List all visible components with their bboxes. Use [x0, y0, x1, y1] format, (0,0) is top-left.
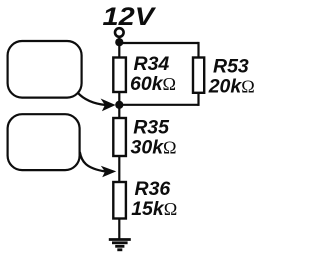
resistor R53 body — [193, 58, 204, 93]
svg-text:R35: R35 — [133, 117, 170, 139]
wire: R53 bottom lead (vertical) — [197, 93, 199, 106]
wire: 12V terminal to R34 top — [118, 37, 120, 58]
svg-text:R53: R53 — [213, 56, 249, 78]
arrow from box 1 to node A — [78, 93, 116, 112]
wire: R35 bottom to R36 top — [118, 156, 120, 182]
svg-text:R34: R34 — [134, 53, 170, 75]
svg-text:12V: 12V — [103, 3, 157, 31]
12V terminal circle — [115, 28, 124, 37]
svg-text:15kΩ: 15kΩ — [131, 198, 177, 220]
node A junction dot — [115, 101, 123, 109]
callout box 1 — [8, 41, 82, 98]
node: top junction dot — [115, 38, 123, 46]
resistor R34 body — [113, 58, 126, 93]
ground — [109, 240, 131, 250]
svg-text:20kΩ: 20kΩ — [208, 75, 255, 97]
arrow from box 2 to R35/R36 node — [80, 152, 116, 177]
wire: R34 bottom to node A — [118, 92, 120, 118]
svg-text:R36: R36 — [135, 178, 171, 200]
resistor R36 body — [113, 182, 126, 219]
wire: node A to R53 bottom (horizontal) — [119, 104, 198, 106]
wire: R36 bottom to ground — [118, 219, 120, 240]
svg-text:30kΩ: 30kΩ — [131, 137, 177, 159]
wire: top node to R53 branch (horizontal) — [119, 42, 198, 44]
resistor R35 body — [113, 118, 126, 156]
svg-text:60kΩ: 60kΩ — [130, 73, 176, 95]
callout box 2 — [8, 114, 80, 170]
wire: R53 top lead (vertical) — [197, 42, 199, 58]
